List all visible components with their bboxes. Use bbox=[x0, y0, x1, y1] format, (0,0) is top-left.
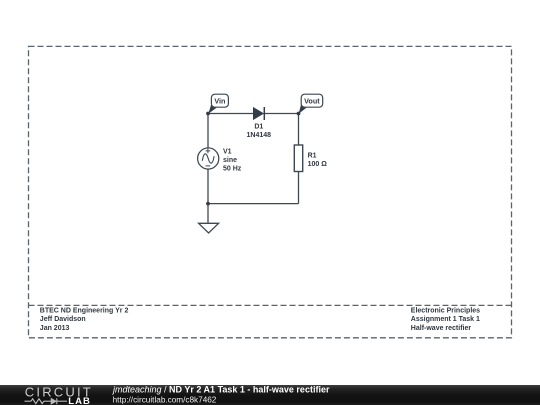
wire R1 bottom up bbox=[298, 172, 300, 204]
svg-text:100 Ω: 100 Ω bbox=[308, 161, 328, 168]
svg-text:1N4148: 1N4148 bbox=[247, 132, 272, 139]
wire ground stem bbox=[207, 204, 209, 223]
svg-text:D1: D1 bbox=[254, 123, 263, 130]
voltage source V1 bbox=[198, 148, 219, 169]
junction dot at ground node bbox=[206, 202, 210, 206]
svg-text:jmdteaching / ND Yr 2 A1 Task: jmdteaching / ND Yr 2 A1 Task 1 - half-w… bbox=[112, 385, 330, 395]
node label Vout bbox=[299, 94, 323, 114]
resistor R1 bbox=[294, 145, 302, 172]
svg-text:V1: V1 bbox=[223, 149, 232, 156]
wire diode cathode to Vout node bbox=[265, 113, 299, 115]
svg-text:Electronic Principles: Electronic Principles bbox=[411, 308, 480, 315]
plus sign bbox=[206, 150, 211, 152]
V1 value labels bbox=[223, 149, 242, 173]
svg-text:http://circuitlab.com/c8k7462: http://circuitlab.com/c8k7462 bbox=[113, 395, 217, 404]
title block divider line bbox=[29, 304, 512, 306]
diode D1 bbox=[253, 107, 264, 120]
wire Vout node down to R1 top bbox=[298, 114, 300, 146]
R1 value labels bbox=[308, 152, 328, 168]
svg-text:LAB: LAB bbox=[68, 396, 91, 405]
CircuitLab logo wordmark bbox=[25, 385, 93, 405]
svg-text:Vout: Vout bbox=[304, 97, 320, 106]
junction dot at Vin node bbox=[206, 112, 210, 116]
footer bar bbox=[0, 385, 540, 405]
schematic frame (dashed border) bbox=[29, 46, 512, 337]
wire bottom horizontal bbox=[208, 203, 299, 205]
svg-text:Vin: Vin bbox=[214, 97, 225, 106]
svg-text:Half-wave rectifier: Half-wave rectifier bbox=[411, 325, 472, 332]
svg-text:Assignment 1 Task 1: Assignment 1 Task 1 bbox=[411, 316, 480, 323]
svg-text:Jan 2013: Jan 2013 bbox=[40, 325, 70, 332]
title block left text bbox=[40, 308, 129, 332]
svg-text:50 Hz: 50 Hz bbox=[223, 166, 242, 173]
junction dot at Vout node bbox=[297, 112, 301, 116]
wire Vin node to diode anode bbox=[208, 113, 254, 115]
minus sign bbox=[206, 165, 211, 167]
title block right text bbox=[411, 308, 480, 332]
svg-text:sine: sine bbox=[223, 157, 237, 164]
wire Vin node down to V1 top bbox=[207, 114, 209, 149]
wire V1 bottom to ground junction bbox=[207, 169, 209, 204]
svg-text:R1: R1 bbox=[308, 152, 317, 159]
sine wave bbox=[202, 154, 214, 163]
svg-text:BTEC ND Engineering Yr 2: BTEC ND Engineering Yr 2 bbox=[40, 308, 129, 315]
logo circuit symbol: wire-resistor-diode bbox=[25, 398, 68, 404]
svg-text:Jeff Davidson: Jeff Davidson bbox=[40, 316, 86, 323]
node label Vin bbox=[208, 94, 228, 114]
D1 value labels bbox=[247, 123, 272, 139]
ground bbox=[199, 223, 219, 233]
